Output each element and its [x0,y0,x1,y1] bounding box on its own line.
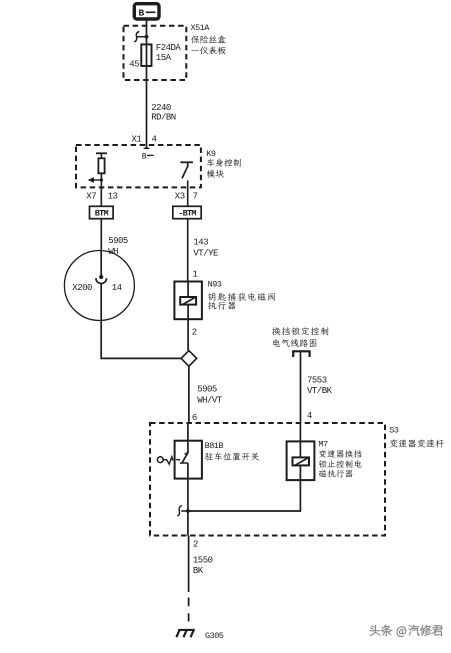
svg-text:4: 4 [152,135,157,145]
wire 143 VT/YE [188,219,218,282]
svg-text:1550: 1550 [193,555,213,565]
off-page reference 换挡锁定控制电气线路图 [272,327,328,357]
K9 module labels 车身控制模块 [206,149,240,178]
svg-text:WH/VT: WH/VT [197,395,223,405]
fuse box labels X51A 保险丝盒-仪表板 [191,23,226,54]
wire M7 return to B81B [188,480,301,511]
solenoid M7 shift lock actuator [287,423,315,480]
svg-text:14: 14 [112,283,122,293]
connector X1 pin 4 into K9 [132,135,157,162]
svg-text:K9: K9 [206,149,216,159]
net label box -BTM [173,187,201,218]
svg-text:N93: N93 [208,280,222,290]
svg-text:X7: X7 [86,192,96,202]
svg-text:2: 2 [193,539,198,549]
connector X7 pin 13 [86,192,117,202]
ground G305 [176,629,223,641]
svg-text:4: 4 [307,411,312,421]
svg-text:6: 6 [192,413,197,423]
svg-text:BTM: BTM [95,209,109,219]
K9 internal driver (resistor + output arrow) [88,153,108,189]
connector X3 pin 7 [175,192,198,202]
svg-text:BK: BK [193,566,204,576]
svg-text:X200: X200 [72,283,92,293]
wire 7553 VT/BK [301,351,333,423]
svg-text:13: 13 [108,192,118,202]
svg-text:7: 7 [193,192,198,202]
svg-text:S3: S3 [389,425,399,435]
svg-text:15A: 15A [156,53,172,63]
svg-text:VT/BK: VT/BK [307,386,333,396]
battery positive terminal B+ [134,4,159,19]
svg-text:5905: 5905 [108,236,128,246]
svg-text:-BTM: -BTM [178,209,196,219]
svg-text:X3: X3 [175,192,185,202]
M7 labels 变速器换挡锁止控制电磁执行器 [318,439,361,477]
svg-text:2: 2 [192,327,197,337]
svg-text:143: 143 [193,237,208,247]
svg-text:1: 1 [192,269,197,279]
svg-text:X1: X1 [132,135,142,145]
splice diamond [181,319,197,366]
svg-text:5905: 5905 [197,384,217,394]
wire 5905 WH/VT [189,366,223,423]
wire 2240 RD/BN [147,66,176,145]
S3 labels 变速器变速杆 [389,425,444,447]
wire from X200 to splice [101,320,181,358]
svg-text:B: B [139,7,145,18]
net label box BTM [90,187,114,218]
pass-through connector X200 pin 14 [64,251,134,321]
K9 internal switch to BTM (right) [180,162,193,189]
N93 labels 钥匙捕获电磁阀执行器 [208,280,275,310]
svg-text:B81B: B81B [205,441,224,451]
svg-text:G305: G305 [205,631,224,641]
svg-text:7553: 7553 [307,375,327,385]
fuse F24DA 15A (position 45) [129,43,181,70]
svg-text:M7: M7 [318,439,328,449]
svg-text:45: 45 [129,60,139,70]
wire 1550 BK to ground [189,536,213,622]
svg-text:2240: 2240 [151,103,171,113]
svg-text:X51A: X51A [191,23,211,33]
solenoid N93 key-capture actuator [174,282,202,320]
park position switch B81B [157,423,202,479]
watermark 头条@汽修君 [370,625,444,638]
fuse box X51A dashed outline [124,26,187,80]
svg-text:VT/YE: VT/YE [193,248,218,258]
in-line connector terminal at fuse feed [134,32,148,43]
K9 body control module dashed box [76,145,201,187]
svg-text:B: B [142,152,147,161]
svg-text:RD/BN: RD/BN [151,113,176,123]
svg-text:F24DA: F24DA [156,43,182,53]
splice with in-line connector below B81B [177,479,189,536]
S3 shift lever dashed box [150,423,385,536]
wire 5905 WH [101,219,128,258]
wire from B+ into fuse box [146,20,148,45]
B81B labels 驻车位置开关 [205,441,260,461]
